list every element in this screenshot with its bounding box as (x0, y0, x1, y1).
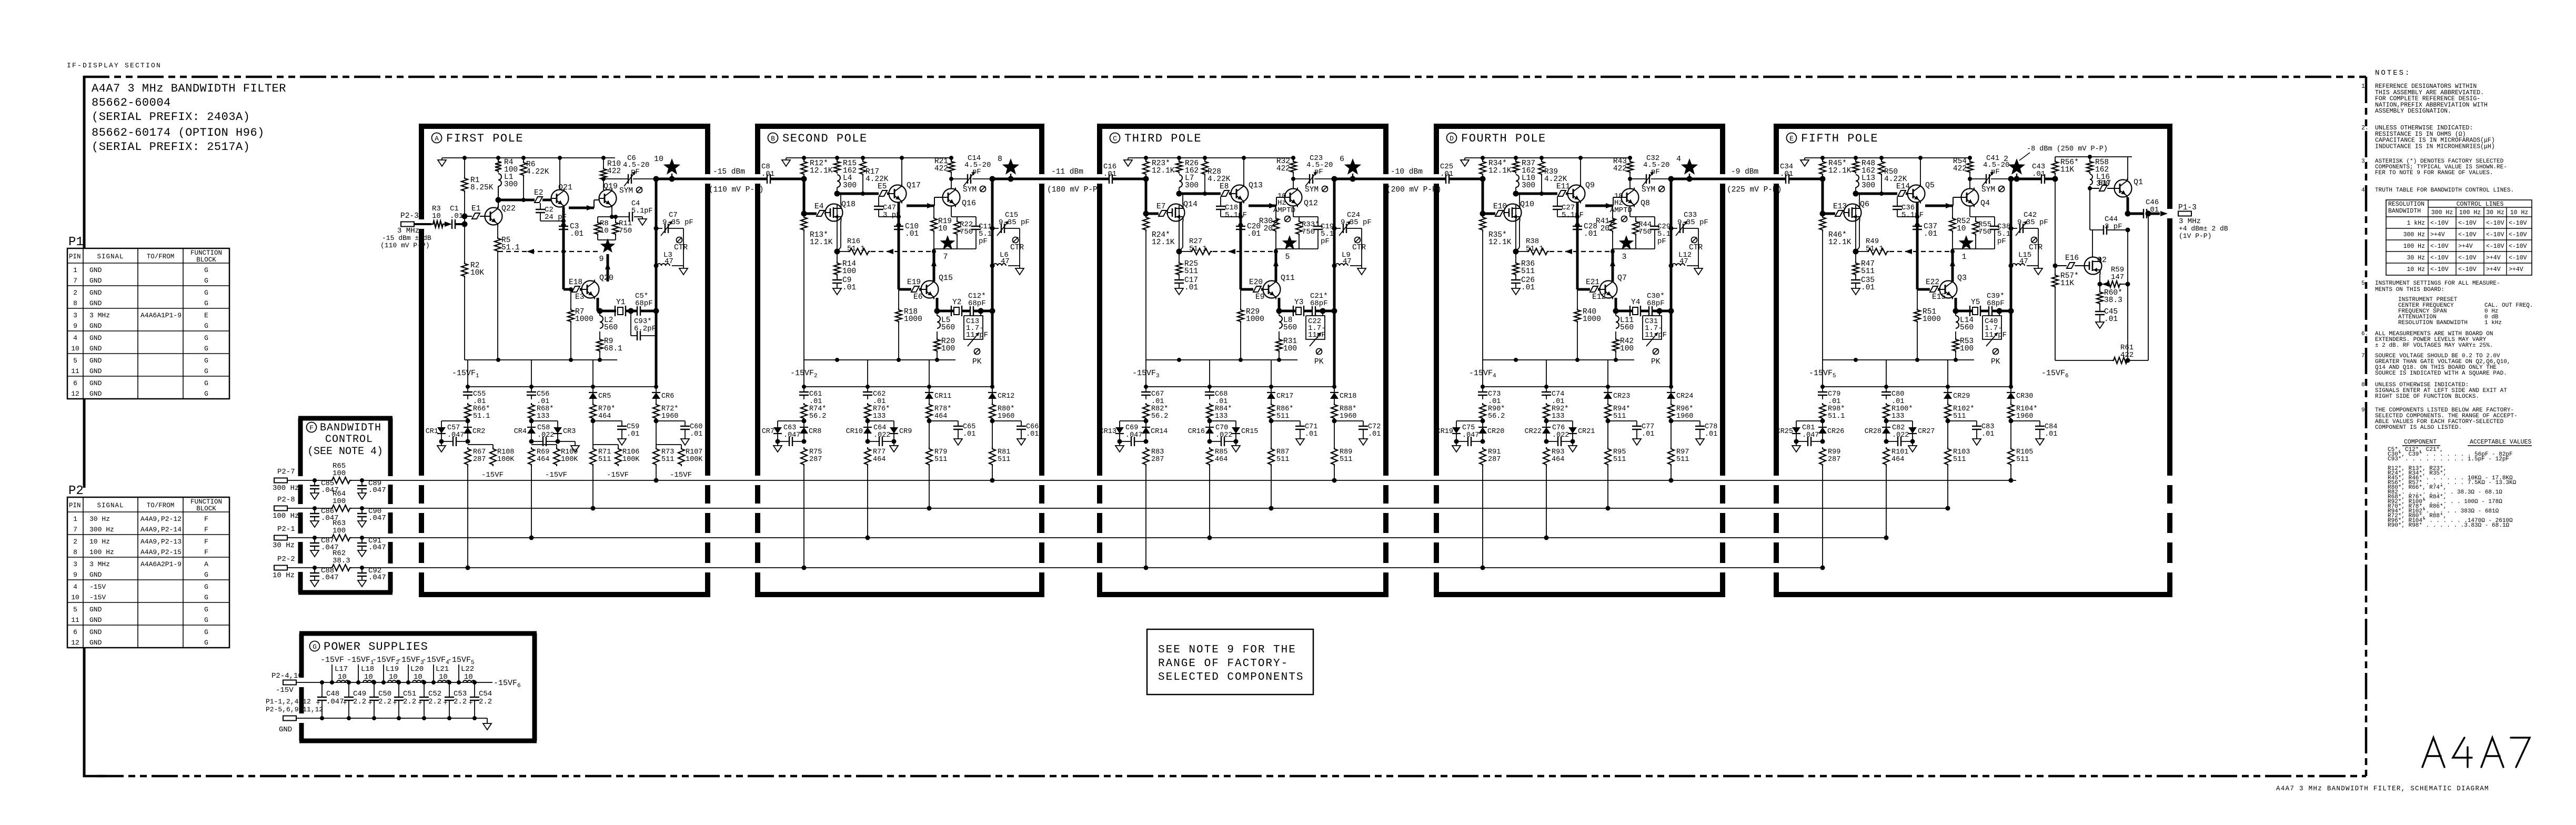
svg-text:C57: C57 (447, 424, 460, 432)
svg-text:FIRST POLE: FIRST POLE (446, 132, 524, 145)
resistor R22 750 / capacitor C11 5.1 (951, 206, 952, 217)
function block FIRST POLE box (419, 124, 710, 129)
svg-text:L19: L19 (386, 665, 399, 673)
inductor L5 560 (937, 316, 940, 328)
svg-text:.047: .047 (368, 514, 386, 522)
diode CR7 (778, 420, 804, 421)
svg-text:P2-2: P2-2 (277, 555, 295, 564)
resistor R92* 133 (1543, 403, 1549, 420)
resistor R6 4.22K (523, 158, 524, 161)
svg-text:C83: C83 (1981, 423, 1994, 431)
diode CR6 (656, 387, 657, 393)
svg-text:ASSEMBLY DESIGNATION.: ASSEMBLY DESIGNATION. (2375, 108, 2451, 115)
transistor Q5 (1908, 185, 1925, 203)
capacitor C86 .047 (313, 506, 317, 510)
svg-text:TO/FROM: TO/FROM (147, 502, 175, 509)
wire top-section bottom rail (1823, 359, 1974, 360)
svg-text:F: F (204, 515, 208, 523)
svg-text:F: F (204, 538, 208, 546)
svg-text:3: 3 (1622, 253, 1626, 261)
svg-text:CR29: CR29 (1953, 393, 1970, 400)
svg-text:L17: L17 (335, 665, 348, 673)
svg-text:2.2: 2.2 (403, 698, 416, 706)
svg-text:SEE NOTE 9 FOR THE: SEE NOTE 9 FOR THE (1158, 644, 1296, 656)
svg-text:1000: 1000 (904, 315, 922, 324)
resistor R88* 1960 (1334, 399, 1335, 403)
svg-text:47: 47 (665, 257, 673, 266)
svg-text:(SERIAL PREFIX: 2517A): (SERIAL PREFIX: 2517A) (92, 140, 250, 154)
jumper E8 (1221, 190, 1229, 196)
svg-text:E20: E20 (1249, 278, 1263, 287)
jumper E20 / E9 (1241, 288, 1253, 291)
svg-text:R79: R79 (934, 448, 947, 456)
svg-text:F: F (204, 548, 208, 556)
svg-text:422: 422 (607, 167, 621, 176)
wire input to gate (1145, 179, 1148, 214)
resistor R95 511 (1607, 421, 1608, 447)
svg-text:G: G (204, 583, 208, 591)
svg-text:Q5: Q5 (1925, 181, 1935, 190)
capacitor C17 .01 (1179, 276, 1180, 280)
svg-text:R97: R97 (1676, 448, 1689, 456)
svg-text:4.22K: 4.22K (1544, 175, 1567, 184)
variable capacitor C42 9-35 pF (2019, 224, 2020, 233)
CTR adjustment (2031, 237, 2037, 243)
capacitor C12* 68pF (962, 310, 970, 313)
resistor R100* 133 (1883, 403, 1889, 420)
svg-text:10: 10 (71, 345, 79, 353)
svg-text:511: 511 (1613, 456, 1626, 464)
svg-text:GND: GND (89, 639, 102, 647)
svg-text:560: 560 (941, 324, 955, 332)
svg-text:FUNCTION: FUNCTION (190, 498, 222, 506)
svg-text:R83: R83 (1151, 448, 1164, 456)
svg-text:CR2: CR2 (472, 428, 485, 436)
capacitor C78 .01 (1671, 420, 1700, 421)
svg-text:1000: 1000 (575, 315, 593, 324)
svg-text:C62: C62 (873, 390, 885, 398)
capacitor C18 5.1pF (1220, 197, 1221, 206)
wire arrow to Q base (1249, 205, 1276, 207)
ground (685, 429, 686, 439)
svg-text:P1: P1 (68, 235, 84, 249)
svg-text:R102*: R102* (1953, 405, 1975, 413)
resistor R17 4.22K (860, 160, 866, 176)
svg-text:Q2: Q2 (2097, 256, 2107, 265)
wire to control line (1271, 466, 1272, 508)
capacitor C39* 68pF (1980, 310, 1989, 313)
wire top-section bottom rail (1146, 359, 1297, 360)
svg-text:C73: C73 (1488, 390, 1501, 398)
resistor R19 10 (933, 206, 934, 217)
resistor R101 464 (1883, 447, 1889, 466)
svg-text:CTR: CTR (1010, 244, 1024, 252)
svg-text:511: 511 (1676, 456, 1689, 464)
svg-text:133: 133 (1215, 413, 1227, 420)
wire Qmid emitter (thick) (1240, 203, 1242, 289)
ground (power supplies) (487, 718, 488, 723)
svg-text:.01: .01 (627, 430, 639, 438)
svg-text:<-10V: <-10V (2430, 255, 2449, 261)
function block SECOND POLE box (755, 124, 1044, 129)
svg-text:511: 511 (1276, 456, 1289, 464)
svg-text:ACCEPTABLE VALUES: ACCEPTABLE VALUES (2470, 439, 2531, 446)
svg-text:+: + (393, 699, 397, 708)
star node 9 (600, 238, 616, 253)
ground (1179, 283, 1180, 288)
truth table for bandwidth control lines (2386, 200, 2532, 275)
resistor R67 287 (465, 447, 471, 466)
jumper E18 / E3 (563, 288, 572, 291)
resistor R43 422 (1627, 160, 1633, 174)
svg-text:6.: 6. (2361, 331, 2368, 337)
svg-text:CR7: CR7 (762, 428, 774, 436)
resistor R91 287 (1480, 447, 1486, 466)
svg-text:P2-8: P2-8 (277, 496, 295, 504)
svg-text:133: 133 (873, 413, 885, 420)
capacitor C9 .01 (837, 276, 838, 280)
capacitor C66 .01 (992, 420, 1021, 421)
transistor Q18 (FET) (826, 204, 843, 222)
diode CR27 (1886, 420, 1913, 421)
svg-text:9-35 pF: 9-35 pF (1341, 218, 1372, 227)
wire signal line -11 dBm (992, 178, 1102, 180)
svg-text:<-10V: <-10V (2458, 255, 2477, 261)
svg-text:2: 2 (73, 538, 77, 546)
svg-text:10: 10 (432, 212, 441, 220)
svg-text:.01: .01 (1103, 170, 1116, 178)
wire to control line (1209, 466, 1210, 538)
svg-text:+: + (343, 699, 347, 708)
svg-text:100K: 100K (561, 456, 578, 464)
svg-text:CR14: CR14 (1151, 428, 1168, 436)
wire -15VF feed rail (bottom section) (468, 386, 656, 387)
capacitor C21* 68pF (1304, 310, 1312, 313)
svg-text:.047: .047 (326, 698, 344, 706)
svg-text:E6: E6 (913, 293, 922, 301)
svg-text:CR9: CR9 (899, 428, 912, 436)
resistor R98* 51.1 (1819, 403, 1826, 420)
svg-text:BANDWIDTH: BANDWIDTH (320, 422, 381, 434)
svg-text:511: 511 (1953, 456, 1966, 464)
svg-text:Q7: Q7 (1617, 274, 1627, 283)
svg-text:R80*: R80* (998, 405, 1014, 413)
resistor R66* 51.1 (465, 403, 471, 420)
svg-text:287: 287 (1488, 456, 1501, 464)
resistor R2 10K (464, 224, 465, 262)
svg-text:300 Hz: 300 Hz (89, 526, 114, 534)
svg-text:GND: GND (89, 299, 102, 307)
capacitor C67 .01 (1145, 387, 1146, 392)
variable capacitor C41 4.5-20 (1968, 177, 1972, 181)
capacitor C90 .047 (360, 506, 364, 510)
capacitor C73 .01 (1482, 387, 1483, 392)
svg-text:B: B (771, 135, 775, 143)
PK adjustment (1993, 349, 1999, 355)
diode CR15 (1210, 420, 1236, 421)
large A4A7 drawing number (2422, 738, 2530, 767)
svg-text:R73: R73 (661, 448, 674, 456)
outer phantom border top (83, 76, 2366, 78)
resistor R68* 133 (528, 403, 535, 420)
wire base drive (thick) (837, 193, 879, 195)
capacitor C1 .01 (451, 219, 452, 229)
ground (1456, 441, 1457, 446)
capacitor C93* 6.2pF (630, 311, 631, 336)
svg-text:+: + (443, 699, 448, 708)
ground (558, 441, 575, 442)
svg-text:750: 750 (1638, 228, 1652, 236)
resistor R104* 1960 (2010, 399, 2011, 403)
svg-text:<-10V: <-10V (2486, 232, 2504, 238)
resistor R37 162 / inductor L10 300 (1513, 160, 1519, 174)
svg-text:47: 47 (1343, 257, 1352, 266)
ground (1572, 441, 1573, 446)
wire Qin source down (1859, 221, 1860, 247)
capacitor C44 3 pF (2089, 188, 2090, 230)
wire output feedback column (2148, 214, 2149, 360)
resistor R90* 56.2 (1480, 403, 1486, 420)
svg-text:100: 100 (333, 469, 346, 478)
capacitor C50 2.2 (372, 680, 376, 685)
capacitor C71 .01 (1271, 420, 1300, 421)
outer phantom border bottom (97, 775, 2366, 778)
svg-text:.01: .01 (842, 284, 856, 292)
resistor R15 162 / inductor L4 300 (834, 160, 840, 174)
svg-text:Q12: Q12 (1304, 199, 1318, 208)
svg-text:-15VF: -15VF (607, 471, 629, 479)
wire to control line (1145, 466, 1146, 568)
ground (1119, 441, 1120, 446)
svg-text:C4: C4 (631, 200, 640, 208)
svg-text:Q14: Q14 (1183, 200, 1198, 209)
label D FOURTH POLE (1447, 133, 1457, 143)
diode CR24 (1671, 387, 1672, 393)
resistor R53 100 (1955, 331, 1956, 338)
svg-text:SYM: SYM (1642, 186, 1655, 194)
svg-text:6: 6 (73, 379, 77, 387)
svg-text:.01: .01 (1247, 230, 1261, 238)
star node 4 (1681, 158, 1698, 175)
svg-text:GND: GND (89, 277, 102, 285)
svg-text:SYM: SYM (1981, 186, 1995, 194)
ground (1361, 266, 1362, 268)
svg-text:P2-7: P2-7 (277, 468, 295, 476)
resistor R29 1000 (1237, 308, 1244, 323)
svg-text:R89: R89 (1340, 448, 1352, 456)
CTR adjustment (677, 237, 682, 243)
wire 100 Hz control line inside box (315, 508, 330, 509)
svg-text:4: 4 (1676, 155, 1681, 164)
svg-text:R86*: R86* (1276, 405, 1293, 413)
svg-text:.01: .01 (1368, 430, 1381, 438)
capacitor C8 .01 (input) (760, 178, 767, 180)
svg-text:511: 511 (1953, 413, 1966, 420)
svg-text:pF: pF (979, 237, 988, 246)
svg-text:287: 287 (1151, 456, 1164, 464)
diode CR8 (803, 421, 804, 427)
label B SECOND POLE (768, 133, 778, 143)
svg-text:20: 20 (1601, 225, 1609, 233)
svg-text:A4A6A1P1-9: A4A6A1P1-9 (140, 311, 182, 319)
svg-text:(225 mV P-P): (225 mV P-P) (1727, 186, 1782, 194)
svg-text:.01: .01 (450, 212, 463, 220)
svg-text:133: 133 (1552, 413, 1564, 420)
variable capacitor C15 9-35 pF (1001, 224, 1002, 233)
svg-text:.01: .01 (963, 430, 975, 438)
resistor R36 511 (1515, 251, 1516, 261)
capacitor C92 .047 (360, 566, 364, 570)
wire -15VF feed rail (bottom section) (1146, 386, 1334, 387)
svg-text:R88*: R88* (1340, 405, 1356, 413)
svg-text:C50: C50 (378, 690, 391, 698)
svg-text:Y4: Y4 (1631, 298, 1640, 307)
svg-text:464: 464 (1552, 456, 1564, 464)
svg-text:7: 7 (73, 277, 77, 285)
resistor R11 750 (615, 217, 616, 221)
resistor R85 464 (1206, 447, 1213, 466)
diode CR3 (531, 420, 558, 421)
wire to control line (803, 466, 804, 568)
svg-text:464: 464 (1891, 456, 1904, 464)
svg-text:.01: .01 (473, 398, 486, 406)
resistor R28 4.22K (1202, 160, 1208, 176)
svg-text:.01: .01 (1552, 398, 1564, 406)
svg-text:.01: .01 (537, 398, 549, 406)
resistor R77 464 (864, 447, 871, 466)
svg-text:<-10V: <-10V (2486, 220, 2504, 227)
svg-text:511: 511 (934, 456, 947, 464)
diode CR1 (441, 420, 468, 421)
resistor R97 511 (1671, 421, 1672, 447)
svg-text:E9: E9 (1255, 293, 1264, 301)
svg-text:(200 mV P-P): (200 mV P-P) (1386, 186, 1441, 194)
svg-text:511: 511 (661, 456, 674, 464)
resistor R12* 12.1K (801, 160, 807, 176)
ground (1235, 441, 1236, 446)
svg-text:G: G (204, 593, 208, 601)
label F BANDWIDTH CONTROL (307, 422, 317, 432)
transistor Q15 (921, 281, 939, 298)
svg-text:3 MHz: 3 MHz (89, 560, 110, 568)
wire to control line (592, 466, 593, 508)
wire input (thick) (445, 223, 449, 225)
svg-text:>+4V: >+4V (2430, 232, 2445, 238)
variable capacitor C6 4.5-20 pF (603, 178, 628, 179)
svg-text:10 Hz: 10 Hz (273, 571, 295, 580)
svg-text:464: 464 (873, 456, 885, 464)
capacitor C25 .01 (input) (1439, 178, 1446, 180)
ground (top rail) (1804, 158, 1805, 160)
svg-text:Q9: Q9 (1585, 181, 1595, 190)
svg-text:R98*: R98* (1828, 405, 1845, 413)
svg-text:AMPTD: AMPTD (1610, 206, 1632, 215)
diode CR13 (1120, 420, 1146, 421)
svg-text:11: 11 (71, 616, 79, 624)
wire feedback (dashed) (1213, 251, 1276, 252)
svg-text:7.: 7. (2361, 353, 2368, 359)
wire to control line (1886, 466, 1887, 538)
resistor R44 750 / capacitor C29 5.1 (1629, 206, 1631, 217)
svg-text:CR28: CR28 (1865, 428, 1881, 436)
svg-text:>+4V: >+4V (2458, 243, 2473, 250)
svg-text:2: 2 (73, 289, 77, 297)
wire output vertical (thick) (1333, 179, 1336, 311)
capacitor C62 .01 (867, 387, 868, 392)
svg-text:C81: C81 (1802, 424, 1815, 432)
svg-text:pF: pF (1314, 168, 1323, 176)
svg-text:.01: .01 (1891, 398, 1904, 406)
capacitor C80 .01 (1886, 387, 1887, 392)
svg-text:R101: R101 (1891, 448, 1908, 456)
svg-text:30 Hz: 30 Hz (89, 515, 110, 523)
svg-text:464: 464 (1215, 456, 1227, 464)
wire top-section bottom rail (465, 359, 617, 360)
wire 30 Hz control line into bandwidth box (287, 537, 315, 538)
capacitor C54 2.2 (472, 680, 477, 685)
wire 10 Hz control line into bandwidth box (287, 567, 315, 568)
resistor R59 147 (2099, 274, 2100, 284)
resistor R18 1000 (895, 308, 902, 323)
svg-text:Q13: Q13 (1249, 181, 1263, 190)
diode CR28 (1886, 421, 1887, 427)
svg-text:.01: .01 (1151, 398, 1164, 406)
resistor R103 511 (1947, 421, 1948, 447)
svg-text:Q3: Q3 (1957, 274, 1967, 283)
svg-text:TRUTH TABLE FOR BANDWIDTH CONT: TRUTH TABLE FOR BANDWIDTH CONTROL LINES. (2375, 187, 2514, 194)
jumper E11 (1558, 190, 1566, 196)
transistor Q3 (1940, 281, 1957, 298)
resistor R23* 12.1K (1143, 160, 1149, 176)
ground (683, 266, 684, 268)
svg-text:E5: E5 (878, 183, 887, 191)
diode CR26 (1822, 421, 1823, 427)
svg-text:R66*: R66* (473, 405, 490, 413)
svg-text:<-10V: <-10V (2430, 220, 2449, 227)
svg-text:3: 3 (73, 560, 77, 568)
svg-text:CTR: CTR (1352, 244, 1366, 252)
svg-text:± 2 dB. RF VOLTAGES MAY VARY±: ± 2 dB. RF VOLTAGES MAY VARY± 25%. (2375, 343, 2493, 349)
svg-text:9: 9 (599, 255, 603, 264)
svg-text:.01: .01 (1440, 170, 1453, 178)
resistor R41 20 (1612, 206, 1613, 217)
label A FIRST POLE (432, 133, 442, 143)
svg-text:PK: PK (1314, 358, 1324, 366)
wire right top rail (2055, 156, 2132, 157)
resistor R78* 464 (929, 399, 930, 403)
capacitor C28 .01 (1575, 223, 1580, 228)
wire star to Q20 (thick) (607, 254, 609, 281)
resistor R30 20 (1275, 206, 1276, 217)
svg-text:5.1pF: 5.1pF (631, 207, 653, 215)
wire Qmid emitter (thick) (898, 203, 900, 289)
wire to control line (1334, 466, 1335, 480)
svg-text:<-10V: <-10V (2509, 243, 2527, 250)
resistor R40 1000 (1574, 308, 1581, 323)
diode CR12 (992, 387, 993, 393)
svg-text:.01: .01 (1924, 230, 1937, 238)
resistor R50 4.22K (1878, 160, 1885, 176)
svg-text:pF: pF (1991, 168, 2000, 176)
svg-text:GND: GND (89, 322, 102, 330)
wire Qb emitter (thick) (1278, 298, 1281, 311)
ground (1300, 429, 1301, 439)
svg-text:C58: C58 (537, 424, 550, 432)
svg-text:G: G (204, 289, 208, 297)
svg-text:511: 511 (1861, 267, 1875, 276)
svg-text:CR12: CR12 (998, 393, 1014, 400)
svg-text:G: G (204, 571, 208, 579)
